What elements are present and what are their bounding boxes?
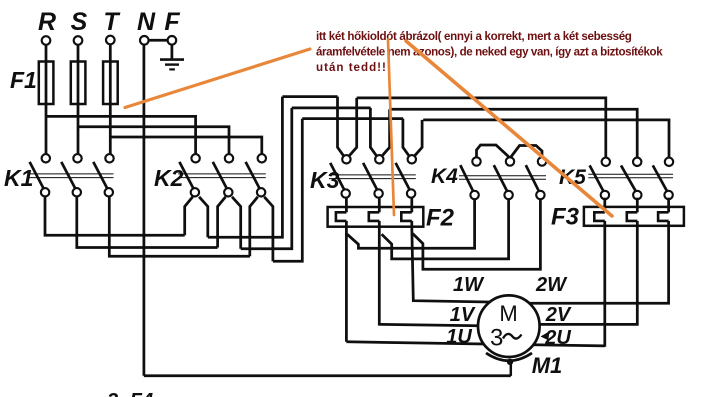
overload relay F3 box [584, 207, 684, 226]
overload relay F3 label [551, 204, 580, 231]
wire bus B left [292, 107, 371, 110]
svg-text:áramfelvétele nem azonos), de: áramfelvétele nem azonos), de neked egy … [316, 45, 663, 58]
annotation text line2 [316, 45, 663, 58]
motor terminal label 2W [535, 274, 568, 296]
phase label R [38, 8, 56, 36]
svg-text:K1: K1 [4, 165, 33, 191]
wire N bottom horizontal [144, 374, 511, 377]
fuse F1-T [103, 62, 118, 105]
motor terminal label 1U [446, 326, 472, 348]
svg-text:K5: K5 [559, 166, 586, 189]
wire F2 pole3 main [412, 227, 490, 302]
wire bell1 right to riser1 [208, 97, 283, 238]
contactor K4 [431, 157, 546, 199]
wire bell2 right to riser2 [241, 108, 292, 249]
wire S vertical [77, 45, 80, 154]
svg-text:F: F [164, 8, 180, 36]
motor frame junction dot [507, 359, 513, 365]
wire T vertical [109, 44, 112, 154]
wire N-F link [149, 39, 168, 42]
svg-text:után tedd!!: után tedd!! [316, 61, 387, 74]
wire F2 pole2 branch to K4 pole2 [382, 199, 509, 259]
annotation text line1 [316, 30, 632, 43]
wire K2 pole3 bell [250, 197, 273, 261]
svg-text:F2: F2 [426, 205, 455, 232]
svg-text:3~F4: 3~F4 [107, 390, 153, 397]
svg-text:N: N [137, 8, 156, 36]
wire K4 bridge 1-2 [477, 145, 510, 158]
neutral label N [137, 8, 156, 36]
clipped bottom text [107, 390, 153, 397]
wire R vertical [45, 45, 48, 154]
ground symbol [160, 45, 184, 70]
wire bus C right to K5 pole3 [423, 120, 669, 158]
contactor K3 [310, 155, 416, 198]
fuse F1-S [71, 62, 86, 105]
wire bus R to K2 pole1 [46, 116, 196, 154]
svg-text:F1: F1 [10, 67, 37, 93]
svg-text:K2: K2 [154, 165, 184, 191]
svg-text:M1: M1 [532, 353, 563, 378]
svg-text:M: M [499, 301, 517, 326]
wire bus S to K2 pole2 [78, 127, 229, 155]
wire K2 pole2 bell [218, 197, 241, 249]
wire bus T to K2 pole3 [110, 137, 261, 154]
wire K3 pole3 funnel [403, 119, 422, 156]
F2 heater pole1 [336, 198, 347, 227]
wire F3 pole3 to 2V [529, 226, 669, 303]
wire bus A right to K5 pole1 [357, 98, 606, 158]
terminal T [106, 36, 115, 45]
svg-text:S: S [71, 8, 88, 36]
fuse F1 label [10, 67, 37, 93]
svg-text:1W: 1W [453, 274, 485, 296]
wire motor earth drop [510, 362, 513, 376]
wire F2 pole1 branch to K4 pole1 [347, 199, 475, 248]
wire bus A left [282, 95, 337, 98]
wire F2out1 to F3out1 [346, 342, 604, 346]
wire K2 pole1 bell [185, 197, 208, 238]
earth label F [164, 8, 180, 36]
wire K3 pole1 funnel [338, 97, 357, 156]
wire bus B right to K5 pole2 [389, 109, 637, 157]
wire N vertical [143, 45, 146, 376]
wire F3 pole1 down [603, 226, 606, 347]
annotation text line3 [316, 61, 387, 74]
terminal N [140, 36, 149, 45]
orange arrow to fuses [125, 49, 310, 108]
motor M1 circle [478, 295, 540, 357]
wire F2 pole1 main [345, 227, 348, 342]
phase label S [71, 8, 88, 36]
svg-text:itt két hőkioldót ábrázol( enn: itt két hőkioldót ábrázol( ennyi a korre… [316, 30, 632, 43]
svg-text:3: 3 [490, 325, 503, 352]
wire K3 pole2 funnel [370, 108, 389, 156]
wire K1 pole3 out [109, 197, 250, 257]
terminal F [168, 36, 177, 45]
wire F3 pole2 to 2U [540, 226, 637, 325]
orange arrow to F3 [406, 41, 612, 216]
motor terminal label 1W [453, 274, 485, 296]
motor text M [499, 301, 517, 326]
wire bus C left [302, 117, 403, 120]
svg-text:1U: 1U [446, 326, 472, 348]
wire F2 pole2 main [379, 227, 478, 326]
svg-text:R: R [38, 8, 56, 36]
overload relay F2 box [328, 207, 424, 227]
contactor K5 [559, 158, 673, 200]
wire K1 pole2 out [77, 197, 218, 248]
F3 heater pole2 [627, 198, 638, 227]
terminal S [74, 36, 83, 45]
F3 heater pole1 [594, 198, 605, 227]
wire K4 bridge 2-3 [511, 146, 543, 158]
motor terminal label 1V [450, 304, 476, 326]
svg-text:K4: K4 [431, 165, 458, 188]
terminal R [42, 36, 51, 45]
svg-text:F3: F3 [551, 204, 580, 231]
motor frame arc [486, 353, 532, 361]
orange arrow to F2 [388, 40, 394, 216]
contactor K1 [4, 154, 114, 196]
wire F2 pole3 branch to K4 pole3 [413, 199, 541, 269]
F3 heater pole3 [658, 198, 669, 227]
overload relay F2 label [426, 205, 455, 232]
svg-text:1V: 1V [450, 304, 476, 326]
F2 heater pole3 [401, 198, 412, 227]
F2 heater pole2 [369, 198, 380, 227]
phase label T [103, 8, 121, 36]
fuse F1-R [39, 62, 54, 105]
motor text 3~ [490, 325, 522, 352]
wire bell3 right to riser3 [273, 119, 302, 262]
motor label M1 [532, 353, 563, 378]
motor terminal label 2U [544, 327, 571, 349]
svg-text:K3: K3 [310, 167, 340, 193]
svg-text:2V: 2V [545, 304, 572, 326]
wire K1 pole1 out [45, 197, 185, 236]
arrowhead at 2U [541, 331, 550, 340]
contactor K2 [154, 154, 266, 196]
svg-text:2W: 2W [535, 274, 568, 296]
motor terminal label 2V [545, 304, 572, 326]
